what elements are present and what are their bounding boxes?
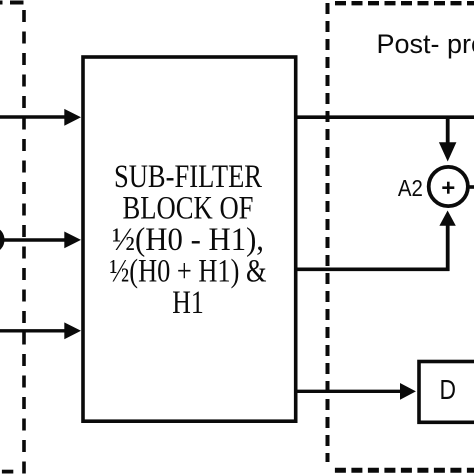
wire drop to adder top — [446, 117, 450, 143]
output wire 3 to delay — [296, 390, 401, 393]
adder plus sign — [442, 182, 454, 194]
pre-processing dashed box top edge — [0, 1, 24, 5]
input wire 2 — [0, 238, 66, 241]
input arrowhead 3 — [64, 322, 81, 339]
output wire 1 — [296, 115, 474, 119]
post-processing dashed box left edge — [326, 3, 330, 462]
post-processing label — [377, 29, 474, 59]
svg-text:A2: A2 — [398, 175, 423, 201]
pre-processing dashed box bottom edge — [2, 470, 13, 474]
output wire 2 — [296, 267, 450, 271]
input wire 3 — [0, 329, 66, 332]
adder label A2 — [398, 175, 423, 201]
adder output wire — [470, 185, 474, 189]
sub-filter block label — [110, 159, 267, 321]
svg-text:D: D — [439, 374, 456, 405]
input arrowhead 1 — [64, 109, 81, 126]
wire rise from output 2 to adder bottom — [446, 225, 450, 271]
pre-processing dashed box right edge — [22, 10, 26, 474]
input wire 1 — [0, 115, 66, 118]
arrowhead into adder bottom — [439, 211, 455, 226]
adder A2 circle — [429, 167, 468, 206]
delay block D — [419, 362, 474, 423]
sub-filter block — [83, 57, 296, 421]
arrowhead into adder top — [439, 142, 457, 161]
arrowhead into delay block — [400, 383, 416, 400]
post-processing dashed box top edge — [335, 1, 474, 5]
svg-text:H1: H1 — [172, 285, 204, 321]
delay block label D — [439, 374, 456, 405]
input node dot — [0, 228, 5, 252]
input arrowhead 2 — [64, 232, 81, 249]
post-processing dashed box bottom edge — [335, 468, 474, 473]
svg-text:Post- processing: Post- processing — [377, 29, 474, 59]
